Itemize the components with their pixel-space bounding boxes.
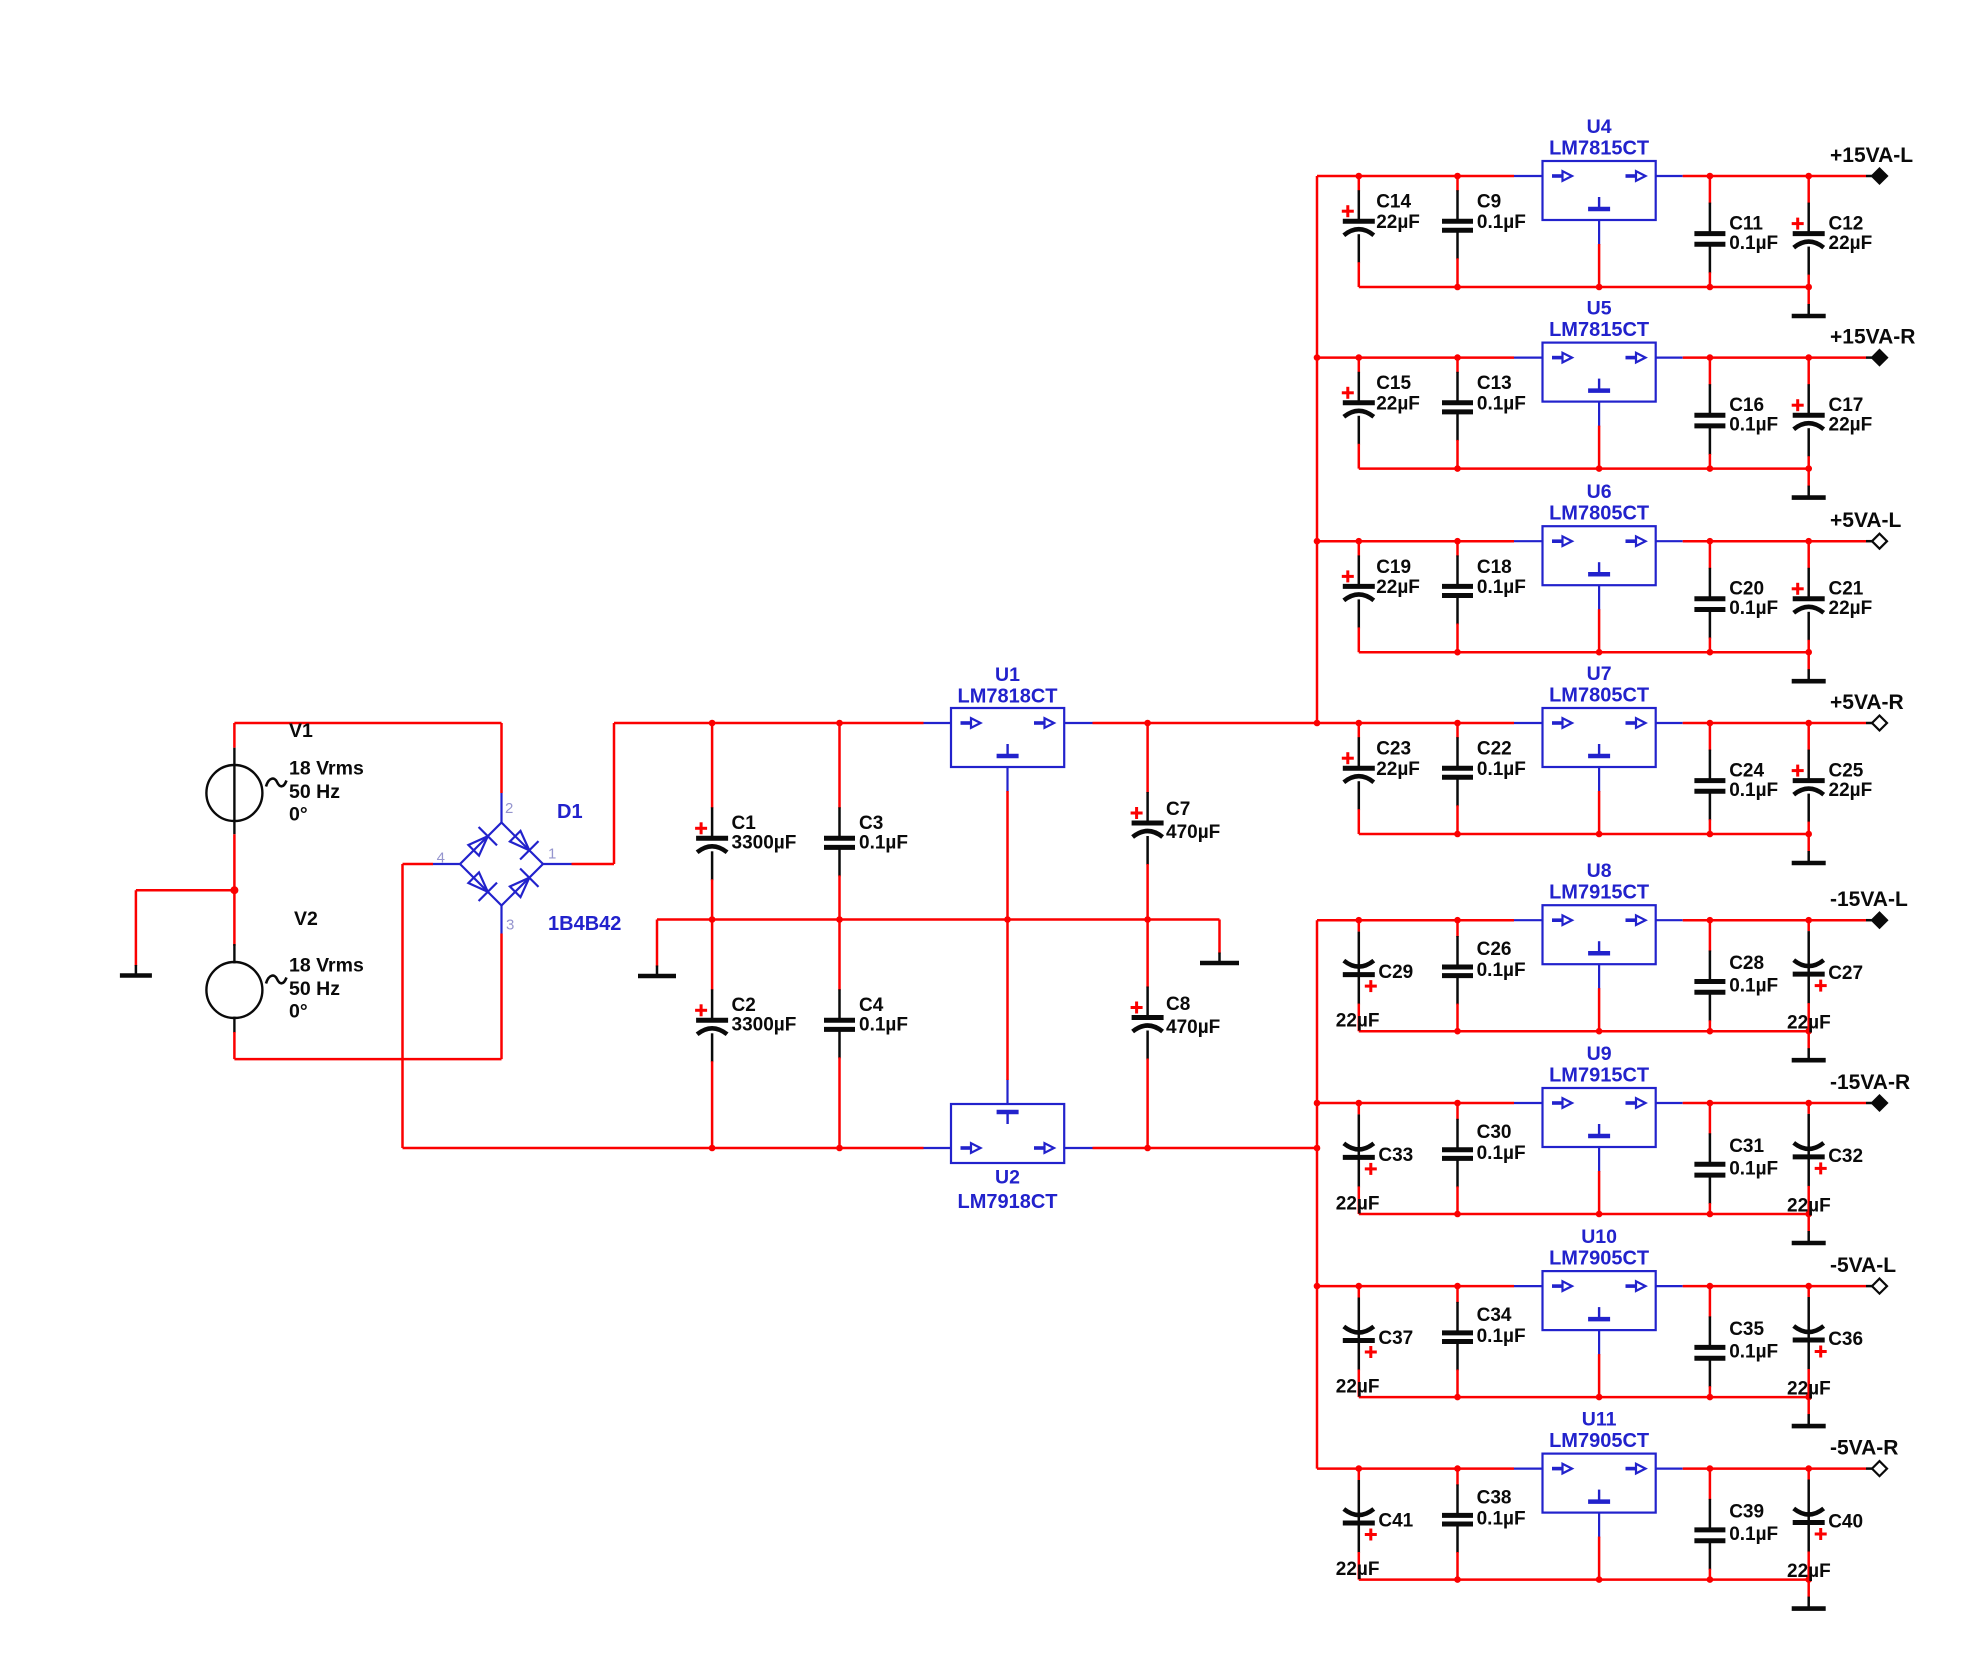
svg-text:22µF: 22µF (1787, 1379, 1831, 1400)
svg-text:C26: C26 (1477, 939, 1512, 960)
svg-text:U4: U4 (1587, 116, 1612, 138)
svg-text:22µF: 22µF (1376, 759, 1420, 780)
svg-text:0.1µF: 0.1µF (1729, 1524, 1778, 1545)
svg-text:C30: C30 (1477, 1122, 1512, 1143)
svg-text:0.1µF: 0.1µF (1477, 759, 1526, 780)
svg-text:C22: C22 (1477, 739, 1512, 760)
svg-text:C33: C33 (1378, 1145, 1413, 1166)
svg-text:U5: U5 (1587, 298, 1612, 320)
svg-text:LM7918CT: LM7918CT (957, 1191, 1057, 1213)
svg-text:0.1µF: 0.1µF (1477, 394, 1526, 415)
svg-text:C3: C3 (859, 813, 883, 834)
svg-text:V1: V1 (289, 720, 313, 742)
svg-text:C2: C2 (732, 995, 756, 1016)
svg-text:22µF: 22µF (1336, 1559, 1380, 1580)
svg-text:C29: C29 (1378, 962, 1413, 983)
svg-text:+5VA-R: +5VA-R (1830, 691, 1904, 714)
svg-text:22µF: 22µF (1829, 233, 1873, 254)
svg-text:U10: U10 (1581, 1226, 1617, 1248)
svg-text:C36: C36 (1828, 1329, 1863, 1350)
svg-text:18 Vrms: 18 Vrms (289, 758, 364, 780)
svg-text:C11: C11 (1729, 214, 1763, 235)
svg-text:C18: C18 (1477, 557, 1512, 578)
svg-text:C24: C24 (1729, 761, 1764, 782)
svg-text:C17: C17 (1829, 395, 1864, 416)
svg-text:C40: C40 (1828, 1512, 1863, 1533)
svg-text:0.1µF: 0.1µF (1729, 233, 1778, 254)
svg-text:1B4B42: 1B4B42 (548, 913, 621, 935)
svg-text:C32: C32 (1828, 1146, 1863, 1167)
svg-text:22µF: 22µF (1336, 1193, 1380, 1214)
svg-text:C20: C20 (1729, 579, 1764, 600)
svg-text:U1: U1 (995, 664, 1020, 686)
svg-text:C35: C35 (1729, 1319, 1764, 1340)
svg-text:50 Hz: 50 Hz (289, 978, 340, 1000)
svg-text:U6: U6 (1587, 481, 1612, 503)
svg-text:LM7815CT: LM7815CT (1549, 319, 1649, 341)
svg-text:22µF: 22µF (1376, 577, 1420, 598)
svg-text:22µF: 22µF (1829, 415, 1873, 436)
svg-text:0.1µF: 0.1µF (1477, 577, 1526, 598)
svg-text:C19: C19 (1376, 557, 1411, 578)
svg-text:470µF: 470µF (1166, 822, 1220, 843)
svg-text:LM7915CT: LM7915CT (1549, 882, 1649, 904)
svg-text:0.1µF: 0.1µF (1729, 976, 1778, 997)
svg-text:+5VA-L: +5VA-L (1830, 509, 1902, 532)
svg-text:LM7905CT: LM7905CT (1549, 1430, 1649, 1452)
svg-text:3300µF: 3300µF (732, 833, 797, 854)
svg-text:0.1µF: 0.1µF (1477, 1509, 1526, 1530)
svg-text:0.1µF: 0.1µF (859, 1015, 908, 1036)
svg-text:LM7805CT: LM7805CT (1549, 685, 1649, 707)
svg-text:LM7915CT: LM7915CT (1549, 1065, 1649, 1087)
svg-text:0.1µF: 0.1µF (1477, 212, 1526, 233)
svg-text:+15VA-L: +15VA-L (1830, 144, 1913, 167)
svg-text:C13: C13 (1477, 373, 1512, 394)
svg-text:C23: C23 (1376, 739, 1411, 760)
svg-text:18 Vrms: 18 Vrms (289, 955, 364, 977)
svg-text:C39: C39 (1729, 1502, 1764, 1523)
svg-text:C12: C12 (1829, 214, 1864, 235)
svg-text:U2: U2 (995, 1167, 1020, 1189)
svg-text:C8: C8 (1166, 994, 1190, 1015)
svg-text:3300µF: 3300µF (732, 1015, 797, 1036)
svg-text:LM7905CT: LM7905CT (1549, 1248, 1649, 1270)
svg-text:C7: C7 (1166, 799, 1190, 820)
svg-text:470µF: 470µF (1166, 1017, 1220, 1038)
svg-text:22µF: 22µF (1787, 1561, 1831, 1582)
svg-text:22µF: 22µF (1376, 394, 1420, 415)
svg-text:C14: C14 (1376, 192, 1411, 213)
svg-text:C15: C15 (1376, 373, 1411, 394)
svg-text:2: 2 (505, 800, 513, 817)
svg-text:C41: C41 (1378, 1511, 1413, 1532)
svg-text:C16: C16 (1729, 395, 1764, 416)
svg-text:LM7818CT: LM7818CT (957, 686, 1057, 708)
svg-text:C38: C38 (1477, 1488, 1512, 1509)
svg-text:-15VA-R: -15VA-R (1830, 1071, 1910, 1094)
svg-text:22µF: 22µF (1376, 212, 1420, 233)
svg-text:C21: C21 (1829, 579, 1864, 600)
svg-text:22µF: 22µF (1336, 1011, 1380, 1032)
svg-text:C28: C28 (1729, 953, 1764, 974)
svg-text:C27: C27 (1828, 963, 1863, 984)
svg-text:-5VA-L: -5VA-L (1830, 1254, 1896, 1277)
svg-text:22µF: 22µF (1829, 780, 1873, 801)
svg-text:22µF: 22µF (1829, 598, 1873, 619)
svg-text:3: 3 (506, 916, 514, 933)
svg-text:0.1µF: 0.1µF (1729, 1159, 1778, 1180)
svg-text:-15VA-L: -15VA-L (1830, 888, 1908, 911)
svg-text:C37: C37 (1378, 1328, 1413, 1349)
svg-text:C1: C1 (732, 813, 757, 834)
svg-text:0.1µF: 0.1µF (1477, 1326, 1526, 1347)
svg-text:C34: C34 (1477, 1305, 1512, 1326)
svg-text:0.1µF: 0.1µF (1729, 598, 1778, 619)
svg-text:0.1µF: 0.1µF (1729, 415, 1778, 436)
svg-text:U11: U11 (1582, 1409, 1617, 1431)
svg-text:22µF: 22µF (1787, 1013, 1831, 1034)
svg-text:U8: U8 (1587, 860, 1612, 882)
svg-text:V2: V2 (294, 908, 318, 930)
svg-text:LM7815CT: LM7815CT (1549, 138, 1649, 160)
svg-text:C4: C4 (859, 995, 884, 1016)
svg-text:C9: C9 (1477, 192, 1501, 213)
svg-text:LM7805CT: LM7805CT (1549, 503, 1649, 525)
svg-text:0.1µF: 0.1µF (1477, 1143, 1526, 1164)
svg-text:22µF: 22µF (1336, 1377, 1380, 1398)
svg-text:+15VA-R: +15VA-R (1830, 326, 1915, 349)
svg-text:0.1µF: 0.1µF (1729, 1342, 1778, 1363)
svg-text:1: 1 (548, 846, 556, 863)
svg-text:C25: C25 (1829, 761, 1864, 782)
svg-text:C31: C31 (1729, 1136, 1764, 1157)
svg-text:D1: D1 (557, 801, 583, 823)
svg-text:0.1µF: 0.1µF (859, 833, 908, 854)
svg-text:U7: U7 (1587, 663, 1612, 685)
svg-text:50 Hz: 50 Hz (289, 781, 340, 803)
svg-text:4: 4 (437, 850, 445, 867)
svg-text:U9: U9 (1587, 1043, 1612, 1065)
svg-text:22µF: 22µF (1787, 1195, 1831, 1216)
svg-text:0°: 0° (289, 804, 308, 826)
svg-text:0°: 0° (289, 1001, 308, 1023)
svg-text:0.1µF: 0.1µF (1477, 960, 1526, 981)
svg-text:-5VA-R: -5VA-R (1830, 1437, 1898, 1460)
svg-text:0.1µF: 0.1µF (1729, 780, 1778, 801)
